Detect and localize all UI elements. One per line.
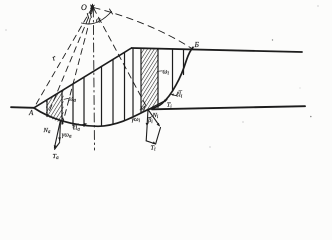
svg-text:A: A xyxy=(28,109,34,117)
svg-text:α: α xyxy=(96,16,101,25)
svg-text:O: O xyxy=(81,3,87,12)
svg-text:Ti: Ti xyxy=(167,102,173,109)
svg-text:Б: Б xyxy=(194,40,200,49)
svg-text:M: M xyxy=(139,105,146,112)
